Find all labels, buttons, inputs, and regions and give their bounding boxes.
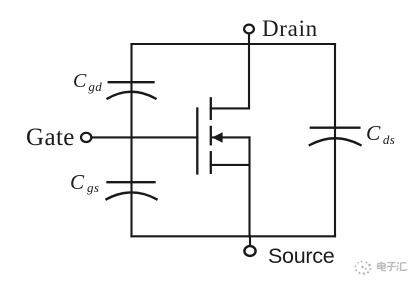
- wire top rail: [132, 43, 336, 45]
- value label C_gd: [73, 70, 102, 93]
- capacitor C_ds flat plate: [311, 127, 360, 129]
- node label Gate: [26, 124, 75, 152]
- wire bottom rail: [132, 235, 336, 237]
- node Drain terminal circle: [244, 25, 254, 34]
- capacitor C_gs flat plate: [108, 181, 155, 183]
- node label Drain: [262, 16, 318, 42]
- wire left rail: [130, 44, 132, 236]
- node Source terminal circle: [244, 246, 255, 256]
- wire gate lead: [91, 136, 197, 138]
- wire drain stem: [248, 34, 250, 109]
- capacitor C_gs curved plate: [107, 192, 157, 199]
- transistor MOSFET channel dash middle: [210, 127, 212, 144]
- wire body lead: [213, 136, 250, 138]
- 汇: [397, 262, 407, 270]
- 子: [387, 263, 396, 271]
- wire source vertical: [248, 137, 250, 236]
- transistor MOSFET channel dash bottom: [210, 152, 212, 173]
- wire source lead: [211, 164, 250, 166]
- transistor MOSFET channel dash top: [210, 98, 212, 119]
- transistor MOSFET gate bar: [196, 109, 198, 174]
- watermark text 电子汇 strokes: [378, 262, 407, 271]
- watermark logo dots: [355, 261, 372, 275]
- capacitor C_ds curved plate: [310, 138, 361, 145]
- value label C_ds: [366, 121, 395, 146]
- 电: [378, 262, 386, 271]
- wire right rail: [334, 44, 336, 236]
- capacitor C_gd flat plate: [109, 81, 154, 83]
- wire source stem: [249, 236, 251, 246]
- value label C_gs: [70, 170, 99, 195]
- node label Source: [268, 244, 334, 269]
- transistor MOSFET body arrow: [212, 132, 223, 143]
- capacitor C_gd curved plate: [108, 92, 156, 99]
- node Gate terminal circle: [81, 133, 91, 142]
- wire drain lead: [211, 107, 249, 109]
